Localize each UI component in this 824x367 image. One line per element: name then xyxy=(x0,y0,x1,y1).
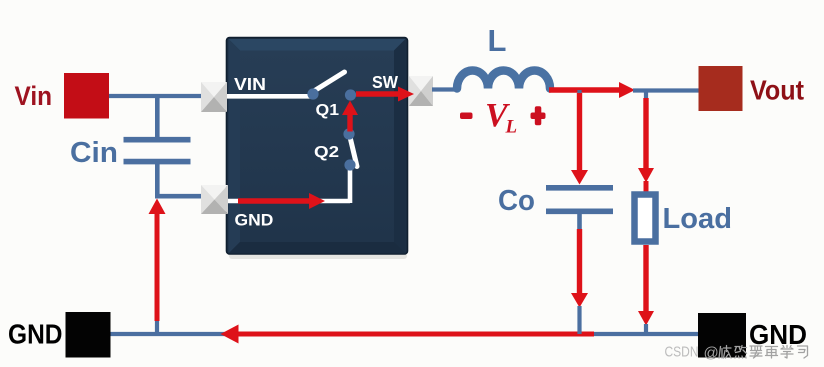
watermark xyxy=(665,344,808,362)
bottom ground rail wire xyxy=(110,332,698,336)
current arrow Co to ground rail (downward) xyxy=(571,229,588,308)
svg-text:Co: Co xyxy=(498,185,535,217)
svg-text:Vin: Vin xyxy=(15,81,53,111)
pin pad GND xyxy=(201,185,228,214)
pin pad VIN xyxy=(201,82,227,112)
wire SW pin to inductor xyxy=(432,87,458,91)
svg-text:Q1: Q1 xyxy=(316,102,340,119)
wire stub Co branch to rail xyxy=(577,306,581,334)
svg-text:SW: SW xyxy=(372,72,398,92)
svg-text:VIN: VIN xyxy=(234,74,266,94)
inductor L coil xyxy=(457,71,550,89)
IC block U1 body xyxy=(227,38,408,260)
resistor Load xyxy=(635,195,656,242)
capacitor Co xyxy=(546,188,613,212)
svg-text:L: L xyxy=(505,117,518,138)
ground terminal left xyxy=(66,312,111,358)
current arrow Q1 node to SW pin (rightward) xyxy=(356,87,414,102)
current arrow into Load (downward) xyxy=(638,98,654,192)
transistor Q1 (high-side switch, open blade) xyxy=(307,72,356,101)
wire stub Load branch to rail xyxy=(644,324,648,334)
wire Cin bottom to GND pin xyxy=(155,163,202,196)
wire stub below Co xyxy=(577,214,582,230)
transistor Q2 (low-side switch, closed blade) xyxy=(343,128,357,170)
node stub above Co xyxy=(577,90,581,96)
svg-text:GND: GND xyxy=(235,211,274,230)
current arrow inductor to output node (rightward) xyxy=(549,82,635,98)
svg-text:CSDN: CSDN xyxy=(665,344,699,361)
wire output node to Vout xyxy=(633,88,699,92)
current arrow Q2 to Q1 node (upward) xyxy=(342,101,358,132)
wire stub left riser to rail xyxy=(155,320,159,334)
svg-text:Vout: Vout xyxy=(750,75,804,106)
svg-text:Cin: Cin xyxy=(70,137,118,169)
label VL polarity minus xyxy=(460,113,473,120)
wire VIN internal xyxy=(213,94,312,99)
output terminal Vout xyxy=(699,66,743,111)
svg-text:Q2: Q2 xyxy=(314,144,339,161)
current arrow left riser (upward) xyxy=(149,199,166,322)
current arrow into Co (downward) xyxy=(571,93,588,185)
pin pad SW xyxy=(409,76,433,106)
ground terminal right xyxy=(698,313,746,358)
node stub above Load xyxy=(644,90,648,99)
label VL polarity plus xyxy=(531,106,546,125)
svg-text:Load: Load xyxy=(663,203,733,235)
input terminal Vin xyxy=(64,73,109,119)
current arrow Load to ground rail (downward) xyxy=(638,245,654,326)
capacitor Cin xyxy=(124,140,191,162)
label VL symbol xyxy=(485,97,517,138)
current arrow bottom rail (right to left) xyxy=(221,325,595,344)
wire GND internal xyxy=(213,166,350,203)
svg-text:GND: GND xyxy=(8,319,63,350)
current arrow GND pin to Q2 (rightward) xyxy=(238,193,325,209)
svg-text:@: @ xyxy=(704,345,719,362)
wire Cin top branch xyxy=(155,94,160,138)
wire Vin to VIN pin xyxy=(109,94,203,98)
svg-text:L: L xyxy=(488,23,507,58)
